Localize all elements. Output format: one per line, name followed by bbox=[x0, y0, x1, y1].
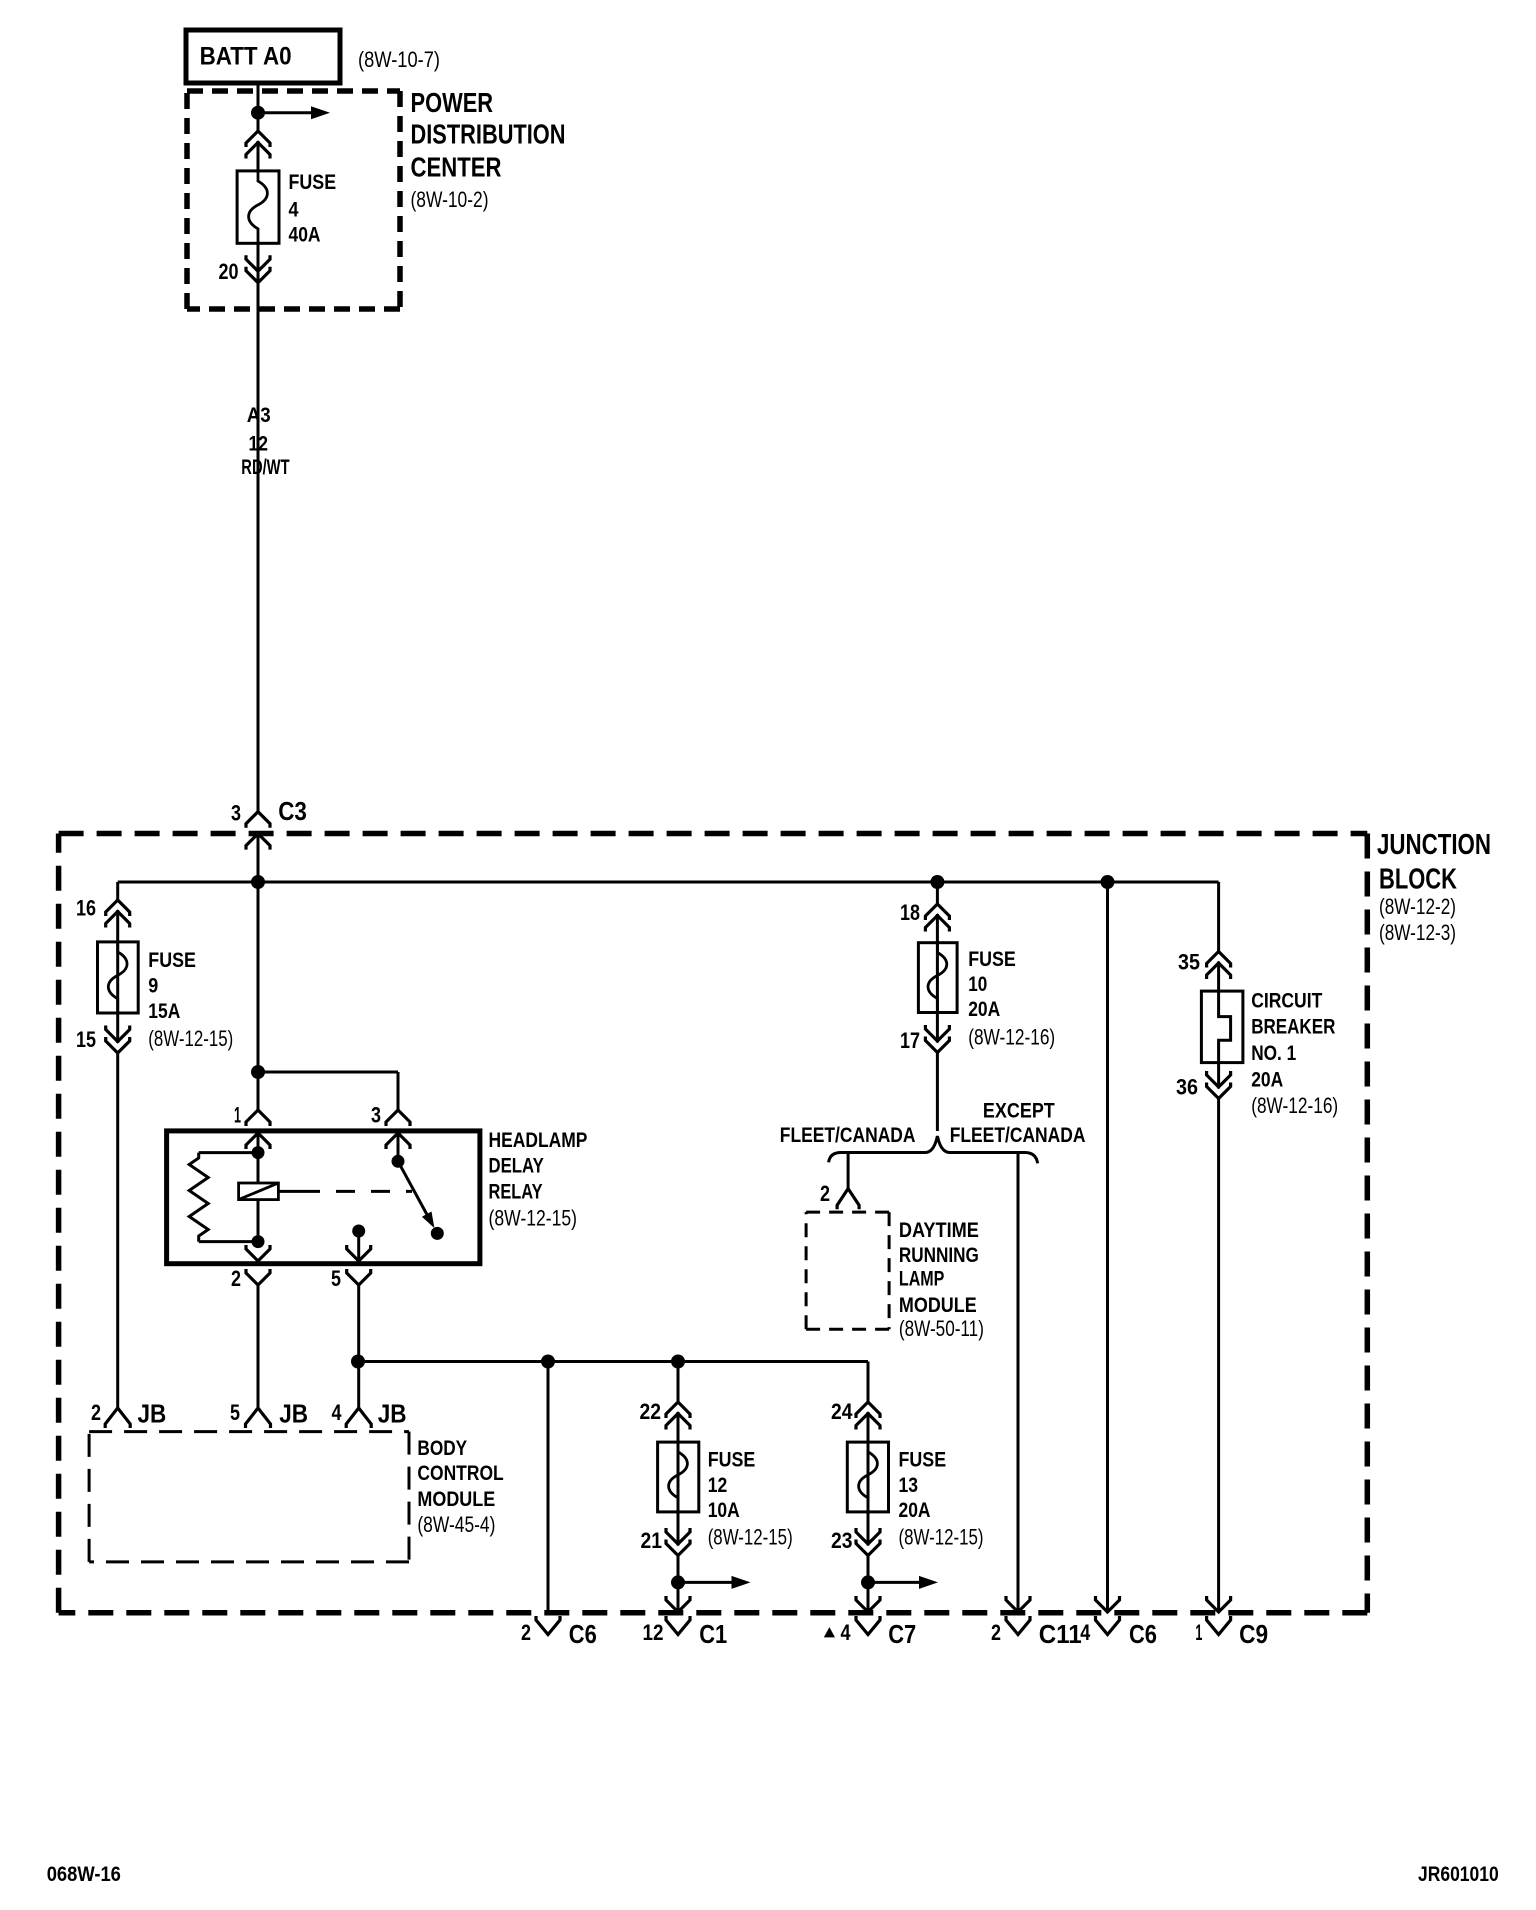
power distribution center label bbox=[411, 87, 566, 212]
connector C7 label bbox=[841, 1619, 917, 1649]
wire fuse 12 branch bbox=[677, 1362, 680, 1613]
wire bus to fuse 9 and BCM pin 2 bbox=[116, 882, 119, 1408]
svg-text:C11: C11 bbox=[1039, 1619, 1082, 1649]
svg-text:C3: C3 bbox=[278, 796, 307, 826]
svg-text:JUNCTION: JUNCTION bbox=[1377, 829, 1491, 861]
connector C3 female half bbox=[246, 812, 270, 828]
daytime running lamp module label bbox=[899, 1219, 984, 1341]
reference label (8W-10-7) bbox=[358, 47, 440, 72]
relay switch contact dot bbox=[431, 1227, 444, 1240]
connector C6 label bbox=[521, 1619, 597, 1649]
svg-text:FUSE: FUSE bbox=[899, 1449, 947, 1472]
svg-text:5: 5 bbox=[331, 1266, 341, 1291]
pin 21 label bbox=[641, 1528, 663, 1553]
svg-text:2: 2 bbox=[820, 1181, 830, 1206]
relay pin 5 terminal dot bbox=[352, 1225, 365, 1238]
svg-text:(8W-12-2): (8W-12-2) bbox=[1379, 894, 1456, 919]
pin 36 label bbox=[1176, 1074, 1198, 1099]
wire BATT A0 to fuse 4 bbox=[257, 83, 260, 171]
svg-text:C1: C1 bbox=[699, 1619, 727, 1649]
svg-text:20A: 20A bbox=[1251, 1068, 1283, 1091]
junction dot above C7 bbox=[861, 1575, 875, 1589]
svg-text:20A: 20A bbox=[968, 998, 1000, 1021]
svg-text:(8W-10-7): (8W-10-7) bbox=[358, 47, 440, 72]
svg-text:(8W-12-15): (8W-12-15) bbox=[148, 1026, 233, 1051]
connector C9 chevron bbox=[1207, 1616, 1231, 1635]
svg-text:(8W-12-15): (8W-12-15) bbox=[899, 1525, 984, 1550]
connector C11 label bbox=[991, 1619, 1082, 1649]
svg-text:BREAKER: BREAKER bbox=[1251, 1015, 1335, 1038]
svg-text:22: 22 bbox=[640, 1399, 662, 1424]
svg-text:40A: 40A bbox=[289, 224, 321, 247]
wire A3 from PDC to C3 bbox=[257, 243, 260, 812]
wire brace to DRL pin 2 bbox=[847, 1153, 850, 1189]
relay coil bottom junction dot bbox=[252, 1235, 265, 1248]
BCM pin 4 connector bbox=[346, 1408, 371, 1428]
svg-text:FUSE: FUSE bbox=[708, 1449, 756, 1472]
svg-text:23: 23 bbox=[831, 1528, 853, 1553]
pin 21 connector chevrons bbox=[666, 1528, 690, 1556]
svg-text:4: 4 bbox=[332, 1400, 343, 1425]
wire relay pin 2 to BCM pin 5 bbox=[257, 1285, 260, 1408]
fuse 9 box bbox=[98, 942, 139, 1013]
connector C9 label bbox=[1195, 1619, 1268, 1649]
relay pin 2 male half bbox=[246, 1245, 270, 1261]
BCM pin 2 label bbox=[91, 1399, 166, 1429]
pin 3 label bbox=[371, 1102, 381, 1127]
sheet number 068W-16 bbox=[47, 1863, 121, 1886]
arrow to other circuit from C7 node bbox=[868, 1576, 938, 1589]
svg-text:FUSE: FUSE bbox=[968, 948, 1016, 971]
power distribution center dashed box bbox=[187, 91, 400, 309]
relay pin 3 male half bbox=[386, 1133, 410, 1161]
svg-text:BATT A0: BATT A0 bbox=[200, 43, 292, 71]
wire bus to connector C6 right bbox=[1106, 882, 1109, 1612]
bus junction dot at C6 branch bbox=[1101, 875, 1115, 889]
svg-text:10A: 10A bbox=[708, 1499, 740, 1522]
relay pin 2 female half bbox=[246, 1269, 270, 1285]
svg-text:C6: C6 bbox=[1129, 1619, 1157, 1649]
svg-text:20A: 20A bbox=[899, 1499, 931, 1522]
svg-text:12: 12 bbox=[249, 433, 269, 456]
pin 15 connector chevrons bbox=[106, 1026, 130, 1054]
connector C6 right label bbox=[1080, 1619, 1157, 1649]
svg-text:3: 3 bbox=[231, 801, 241, 826]
pin 17 label bbox=[900, 1028, 920, 1053]
relay coil top junction dot bbox=[252, 1146, 265, 1159]
svg-text:C6: C6 bbox=[569, 1619, 597, 1649]
connector C7 footnote triangle bbox=[824, 1627, 835, 1637]
svg-text:C7: C7 bbox=[888, 1619, 916, 1649]
svg-text:18: 18 bbox=[900, 900, 920, 925]
svg-text:13: 13 bbox=[899, 1474, 919, 1497]
pin 24 label bbox=[831, 1399, 853, 1424]
junction dot at fuse 12 drop bbox=[671, 1355, 685, 1369]
fuse 10 label bbox=[968, 948, 1055, 1050]
svg-text:NO. 1: NO. 1 bbox=[1251, 1042, 1296, 1065]
relay pin 1 connector bbox=[246, 1110, 270, 1126]
wire arrowhead at C6 right bbox=[1096, 1596, 1120, 1612]
junction dot above C1 bbox=[671, 1575, 685, 1589]
svg-text:JB: JB bbox=[279, 1399, 308, 1429]
svg-text:JR601010: JR601010 bbox=[1418, 1863, 1499, 1886]
svg-text:A3: A3 bbox=[247, 404, 271, 427]
svg-text:CONTROL: CONTROL bbox=[417, 1462, 503, 1485]
connector C11 chevron bbox=[1006, 1616, 1030, 1635]
svg-text:3: 3 bbox=[371, 1102, 381, 1127]
pin 22 label bbox=[640, 1399, 662, 1424]
arrow to other circuits bbox=[258, 106, 330, 119]
BCM pin 5 label bbox=[230, 1399, 308, 1429]
svg-text:(8W-12-16): (8W-12-16) bbox=[968, 1024, 1055, 1049]
connector C3 male half bbox=[246, 834, 270, 882]
connector C3 name bbox=[278, 796, 307, 826]
svg-text:FUSE: FUSE bbox=[148, 949, 196, 972]
wire arrowhead at C7 bbox=[856, 1596, 880, 1612]
connector C1 label bbox=[643, 1619, 728, 1649]
svg-text:5: 5 bbox=[230, 1400, 240, 1425]
fuse 13 element bbox=[859, 1442, 878, 1512]
body control module dashed box bbox=[89, 1432, 409, 1562]
wire brace to connector C11 bbox=[1017, 1153, 1020, 1613]
bus junction dot at fuse 10 branch bbox=[930, 875, 944, 889]
wire to fuses 12 and 13 bbox=[358, 1362, 868, 1403]
svg-text:20: 20 bbox=[219, 259, 239, 284]
circuit breaker no. 1 box bbox=[1201, 991, 1243, 1063]
wire arrowhead at C11 bbox=[1006, 1596, 1030, 1612]
relay switch arm bbox=[398, 1161, 434, 1228]
fuse 9 label bbox=[148, 949, 233, 1051]
svg-text:(8W-45-4): (8W-45-4) bbox=[417, 1512, 495, 1537]
svg-text:BLOCK: BLOCK bbox=[1379, 864, 1457, 896]
svg-text:MODULE: MODULE bbox=[899, 1294, 977, 1317]
pin 22 connector chevrons bbox=[666, 1402, 690, 1430]
bus wire in junction block bbox=[118, 881, 1219, 884]
svg-text:FUSE: FUSE bbox=[289, 171, 337, 194]
svg-text:1: 1 bbox=[234, 1102, 241, 1127]
pin 3 label at C3 bbox=[231, 801, 241, 826]
svg-text:4: 4 bbox=[289, 199, 299, 222]
circuit breaker label bbox=[1251, 989, 1338, 1118]
svg-text:JB: JB bbox=[138, 1399, 167, 1429]
pin 24 connector chevrons bbox=[856, 1402, 880, 1430]
wire to connector C6 bbox=[547, 1362, 550, 1613]
body control module label bbox=[417, 1437, 503, 1537]
relay coil resistor bbox=[189, 1153, 258, 1242]
svg-text:4: 4 bbox=[841, 1620, 852, 1645]
pin 35 label bbox=[1178, 950, 1200, 975]
svg-text:DAYTIME: DAYTIME bbox=[899, 1219, 979, 1242]
svg-text:FLEET/CANADA: FLEET/CANADA bbox=[780, 1124, 916, 1147]
svg-text:2: 2 bbox=[231, 1266, 241, 1291]
relay pin 1 male half bbox=[246, 1133, 270, 1153]
pin 18 label bbox=[900, 900, 920, 925]
svg-text:9: 9 bbox=[148, 974, 158, 997]
svg-text:15: 15 bbox=[76, 1027, 96, 1052]
svg-text:LAMP: LAMP bbox=[899, 1268, 945, 1291]
relay pin 5 female half bbox=[347, 1269, 371, 1285]
svg-text:12: 12 bbox=[643, 1620, 664, 1645]
BCM pin 4 label bbox=[332, 1399, 407, 1429]
svg-text:FLEET/CANADA: FLEET/CANADA bbox=[950, 1124, 1086, 1147]
pin 16 connector chevrons bbox=[106, 900, 130, 928]
relay pin 5 male half bbox=[347, 1231, 371, 1261]
svg-text:C9: C9 bbox=[1239, 1619, 1268, 1649]
wire arrowhead at C1 bbox=[666, 1596, 690, 1612]
fuse 4 element bbox=[249, 171, 268, 243]
svg-text:CIRCUIT: CIRCUIT bbox=[1251, 989, 1322, 1012]
wire relay pin 5 to BCM pin 4 bbox=[357, 1285, 360, 1408]
connector C7 chevron bbox=[856, 1616, 880, 1635]
svg-text:BODY: BODY bbox=[417, 1437, 467, 1460]
svg-text:10: 10 bbox=[968, 973, 987, 996]
fuse 4 box bbox=[237, 171, 279, 243]
svg-text:2: 2 bbox=[991, 1620, 1001, 1645]
wire bus to circuit breaker bbox=[1217, 882, 1220, 1612]
svg-text:DISTRIBUTION: DISTRIBUTION bbox=[411, 119, 566, 150]
DRL pin 2 connector bbox=[837, 1189, 859, 1210]
wire fuse 13 branch bbox=[867, 1402, 870, 1612]
pin 16 label bbox=[76, 895, 96, 920]
svg-text:MODULE: MODULE bbox=[417, 1488, 495, 1511]
junction block label bbox=[1377, 829, 1491, 945]
pin 20 connector chevrons bbox=[246, 255, 270, 283]
relay coil wire pin1 to pin2 bbox=[257, 1153, 260, 1242]
fuse 12 element bbox=[669, 1442, 688, 1512]
arrow to other circuit from C1 node bbox=[678, 1576, 751, 1589]
pin 35 connector chevrons bbox=[1207, 952, 1231, 980]
fuse 10 box bbox=[918, 943, 957, 1013]
connector chevrons into PDC bbox=[246, 131, 270, 159]
relay coil symbol box bbox=[239, 1183, 279, 1200]
DRL pin 2 label bbox=[820, 1181, 830, 1206]
svg-text:24: 24 bbox=[831, 1399, 853, 1424]
svg-text:DELAY: DELAY bbox=[489, 1155, 544, 1178]
junction dot at C6 drop bbox=[541, 1355, 555, 1369]
wire label A3 12 RD/WT bbox=[241, 404, 289, 479]
connector C1 chevron bbox=[666, 1616, 690, 1635]
svg-text:RELAY: RELAY bbox=[489, 1181, 543, 1204]
svg-text:(8W-10-2): (8W-10-2) bbox=[411, 187, 489, 212]
svg-text:POWER: POWER bbox=[411, 87, 494, 118]
pin 2 label bbox=[231, 1266, 241, 1291]
BCM pin 5 connector bbox=[246, 1408, 271, 1428]
pin 17 connector chevrons bbox=[925, 1025, 949, 1053]
headlamp delay relay label bbox=[489, 1129, 588, 1230]
fuse 12 label bbox=[708, 1449, 793, 1550]
svg-text:36: 36 bbox=[1176, 1074, 1198, 1099]
junction dot above relay bbox=[251, 1065, 265, 1079]
circuit breaker element bbox=[1219, 991, 1231, 1063]
pin 18 connector chevrons bbox=[925, 904, 949, 932]
fuse 4 label bbox=[289, 171, 337, 247]
pin 36 connector chevrons bbox=[1207, 1071, 1231, 1099]
relay switch pivot dot bbox=[392, 1155, 405, 1168]
svg-text:15A: 15A bbox=[148, 1000, 180, 1023]
variant split brace bbox=[829, 1136, 1038, 1163]
svg-text:EXCEPT: EXCEPT bbox=[983, 1100, 1055, 1123]
fuse 13 label bbox=[899, 1449, 984, 1550]
wire arrowhead at C9 bbox=[1207, 1596, 1231, 1612]
svg-text:(8W-50-11): (8W-50-11) bbox=[899, 1316, 984, 1341]
fuse 10 element bbox=[928, 943, 947, 1013]
bus junction dot at main feed bbox=[251, 875, 265, 889]
pin 20 label bbox=[219, 259, 239, 284]
svg-text:2: 2 bbox=[521, 1620, 531, 1645]
pin 23 label bbox=[831, 1528, 853, 1553]
svg-text:(8W-12-15): (8W-12-15) bbox=[708, 1525, 793, 1550]
variant labels bbox=[780, 1100, 1086, 1147]
svg-text:HEADLAMP: HEADLAMP bbox=[489, 1129, 588, 1152]
svg-text:(8W-12-3): (8W-12-3) bbox=[1379, 920, 1456, 945]
svg-text:16: 16 bbox=[76, 895, 96, 920]
svg-text:JB: JB bbox=[378, 1399, 407, 1429]
junction dot on pin 5 wire bbox=[351, 1355, 365, 1369]
pin 1 label bbox=[234, 1102, 241, 1127]
connector C6 right chevron bbox=[1096, 1616, 1120, 1635]
daytime running lamp module dashed box bbox=[806, 1212, 889, 1329]
relay pin 3 connector bbox=[386, 1110, 410, 1126]
node junction dot in PDC bbox=[251, 106, 265, 120]
headlamp delay relay box bbox=[167, 1131, 480, 1264]
BCM pin 2 connector bbox=[105, 1408, 130, 1428]
wire bus to relay pin 1 bbox=[257, 882, 260, 1110]
svg-text:RUNNING: RUNNING bbox=[899, 1244, 979, 1267]
relay actuation dashed link bbox=[278, 1190, 412, 1193]
wire branch to relay pin 3 bbox=[258, 1072, 398, 1110]
pin 15 label bbox=[76, 1027, 96, 1052]
junction block dashed box bbox=[59, 834, 1368, 1613]
wire bus to fuse 10 bbox=[936, 882, 939, 1131]
svg-text:21: 21 bbox=[641, 1528, 663, 1553]
diagram id JR601010 bbox=[1418, 1863, 1499, 1886]
svg-text:RD/WT: RD/WT bbox=[241, 456, 289, 479]
connector C6 chevron bbox=[536, 1616, 560, 1635]
svg-text:(8W-12-16): (8W-12-16) bbox=[1251, 1093, 1338, 1118]
fuse 9 element bbox=[108, 942, 127, 1013]
battery feed box BATT A0 bbox=[186, 30, 340, 83]
svg-text:(8W-12-15): (8W-12-15) bbox=[489, 1205, 578, 1230]
pin 23 connector chevrons bbox=[856, 1528, 880, 1556]
svg-text:17: 17 bbox=[900, 1028, 920, 1053]
svg-text:1: 1 bbox=[1195, 1620, 1202, 1645]
pin 5 label bbox=[331, 1266, 341, 1291]
fuse 13 box bbox=[847, 1442, 888, 1512]
fuse 12 box bbox=[658, 1442, 699, 1512]
svg-text:12: 12 bbox=[708, 1474, 728, 1497]
svg-text:068W-16: 068W-16 bbox=[47, 1863, 121, 1886]
svg-text:CENTER: CENTER bbox=[411, 152, 502, 183]
svg-text:35: 35 bbox=[1178, 950, 1200, 975]
svg-text:2: 2 bbox=[91, 1400, 101, 1425]
svg-text:4: 4 bbox=[1080, 1620, 1091, 1645]
